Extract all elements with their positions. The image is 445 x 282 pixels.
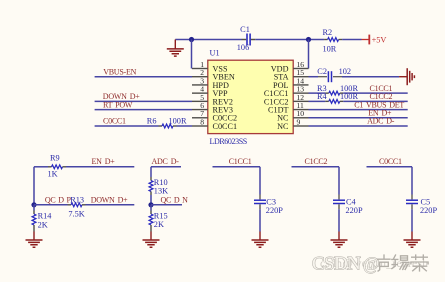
svg-text:RT POW: RT POW xyxy=(103,100,133,109)
svg-text:+5V: +5V xyxy=(372,36,387,45)
svg-text:VBUS-EN: VBUS-EN xyxy=(103,67,136,76)
svg-text:C2: C2 xyxy=(317,67,327,76)
svg-text:7.5K: 7.5K xyxy=(68,209,84,218)
svg-text:R4: R4 xyxy=(317,92,328,101)
svg-text:13K: 13K xyxy=(154,187,168,196)
svg-text:2K: 2K xyxy=(154,220,164,229)
svg-text:R13: R13 xyxy=(70,195,84,204)
svg-text:ADC D-: ADC D- xyxy=(367,117,395,126)
svg-text:C5: C5 xyxy=(421,198,431,207)
svg-text:R6: R6 xyxy=(147,117,157,126)
svg-text:106: 106 xyxy=(237,43,249,52)
svg-text:C1CC2: C1CC2 xyxy=(305,157,328,166)
svg-text:QC D N: QC D N xyxy=(161,195,189,204)
svg-text:C1: C1 xyxy=(240,25,250,34)
svg-text:QC D P: QC D P xyxy=(45,195,72,204)
svg-text:C3: C3 xyxy=(266,198,276,207)
svg-text:R2: R2 xyxy=(323,28,333,37)
svg-text:@: @ xyxy=(363,254,379,274)
svg-text:R14: R14 xyxy=(38,212,53,221)
svg-text:C0CC1: C0CC1 xyxy=(103,117,126,126)
svg-text:9: 9 xyxy=(297,117,301,126)
svg-text:220P: 220P xyxy=(346,206,363,215)
svg-text:10R: 10R xyxy=(323,45,337,54)
svg-text:220P: 220P xyxy=(266,206,283,215)
svg-text:100R: 100R xyxy=(169,117,187,126)
svg-text:220P: 220P xyxy=(420,206,437,215)
svg-text:C1CC1: C1CC1 xyxy=(229,157,252,166)
svg-text:R9: R9 xyxy=(50,154,60,163)
svg-text:EN D+: EN D+ xyxy=(92,157,116,166)
svg-text:NC: NC xyxy=(277,122,289,131)
svg-text:C0CC1: C0CC1 xyxy=(379,157,402,166)
svg-text:102: 102 xyxy=(339,67,351,76)
svg-text:LDR6023SS: LDR6023SS xyxy=(210,137,247,146)
svg-text:CSDN: CSDN xyxy=(312,254,361,275)
svg-text:ADC D-: ADC D- xyxy=(152,157,180,166)
svg-text:2K: 2K xyxy=(38,221,48,230)
svg-text:1K: 1K xyxy=(48,170,58,179)
svg-text:C4: C4 xyxy=(346,198,357,207)
svg-text:8: 8 xyxy=(200,117,204,126)
svg-text:C0CC1: C0CC1 xyxy=(213,122,238,131)
svg-text:U1: U1 xyxy=(210,49,220,58)
svg-text:DOWN D+: DOWN D+ xyxy=(91,195,128,204)
